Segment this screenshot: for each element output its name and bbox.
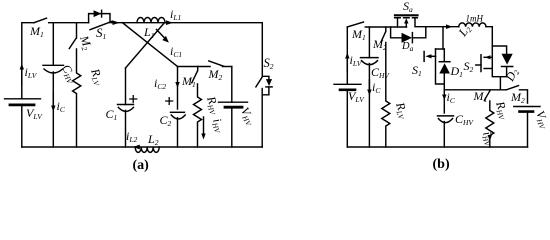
svg-text:C2: C2 — [160, 113, 172, 128]
svg-text:(a): (a) — [133, 158, 150, 173]
svg-text:S2: S2 — [464, 59, 474, 74]
svg-text:VLV: VLV — [348, 89, 365, 104]
svg-text:L2: L2 — [147, 132, 159, 147]
svg-text:S1: S1 — [412, 63, 422, 78]
svg-text:VHV: VHV — [532, 109, 550, 132]
svg-text:M1: M1 — [29, 24, 44, 39]
svg-text:S1: S1 — [96, 25, 106, 41]
svg-text:RHV: RHV — [203, 94, 223, 117]
svg-text:M2: M2 — [76, 33, 95, 52]
svg-text:M2: M2 — [510, 90, 525, 105]
svg-text:iC1: iC1 — [170, 44, 182, 59]
svg-text:C1: C1 — [106, 107, 118, 122]
svg-text:(b): (b) — [433, 157, 450, 172]
svg-text:iLV: iLV — [350, 53, 363, 68]
svg-text:S2: S2 — [264, 56, 274, 71]
svg-text:RHV: RHV — [492, 99, 512, 122]
svg-text:iC: iC — [57, 99, 66, 114]
svg-text:iHV: iHV — [479, 130, 498, 149]
svg-text:M1: M1 — [351, 27, 366, 42]
svg-text:Sa: Sa — [403, 0, 413, 14]
svg-text:iC: iC — [447, 90, 456, 105]
svg-text:M2: M2 — [208, 67, 223, 82]
svg-text:RLV: RLV — [87, 66, 107, 88]
svg-text:iL2: iL2 — [126, 129, 138, 144]
svg-text:M1: M1 — [473, 89, 488, 104]
svg-text:M2: M2 — [372, 37, 387, 52]
svg-text:iL1: iL1 — [170, 7, 181, 22]
svg-text:D2: D2 — [502, 66, 521, 85]
svg-text:M1: M1 — [181, 74, 196, 89]
svg-text:iLV: iLV — [25, 65, 38, 80]
svg-text:CHV: CHV — [371, 65, 390, 80]
svg-text:iC2: iC2 — [154, 76, 166, 91]
svg-text:1mH: 1mH — [466, 14, 484, 24]
svg-text:VLV: VLV — [26, 106, 43, 121]
svg-text:CHV: CHV — [455, 112, 474, 127]
svg-text:L1: L1 — [143, 25, 154, 40]
svg-text:iHV: iHV — [209, 117, 228, 136]
svg-text:iC: iC — [372, 80, 381, 95]
svg-text:D1: D1 — [450, 64, 463, 79]
svg-text:RLV: RLV — [392, 100, 412, 122]
